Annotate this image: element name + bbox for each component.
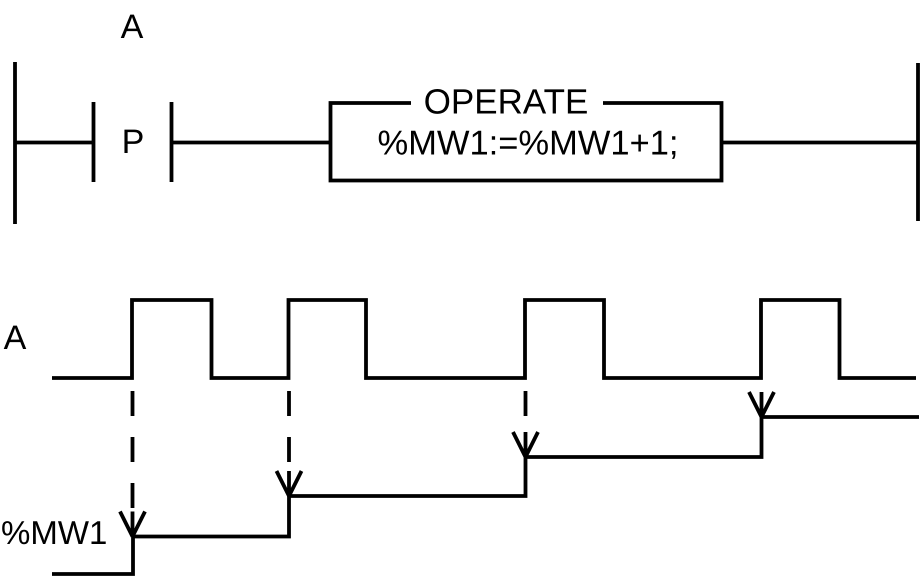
- label A above contact: [121, 15, 144, 38]
- arrowhead 4 (no dash needed): [749, 392, 774, 417]
- left power rail: [13, 62, 17, 224]
- timing label A: [4, 326, 27, 349]
- dashed edge line 3: [524, 391, 528, 432]
- waveform A (square pulses): [52, 300, 916, 378]
- wire: contact to OPERATE block: [172, 141, 330, 145]
- OPERATE block title text: [425, 89, 586, 114]
- contact A (P edge) left bar: [92, 102, 96, 182]
- staircase waveform %MW1: [52, 417, 919, 574]
- OPERATE block outline: [331, 103, 722, 181]
- OPERATE block statement text %MW1:=%MW1+1;: [379, 131, 676, 159]
- contact A (P edge) right bar: [170, 102, 174, 182]
- dashed edge line 1: [131, 391, 135, 512]
- wire: left rail to contact: [14, 141, 94, 145]
- right power rail: [916, 63, 920, 221]
- timing label %MW1: [2, 521, 106, 544]
- dashed edge line 2: [287, 391, 291, 471]
- arrowhead 3: [513, 432, 538, 457]
- contact modifier letter P: [124, 130, 142, 153]
- wire: OPERATE block to right rail: [722, 141, 920, 145]
- arrowhead 2: [277, 471, 302, 496]
- arrowhead 1: [120, 512, 145, 537]
